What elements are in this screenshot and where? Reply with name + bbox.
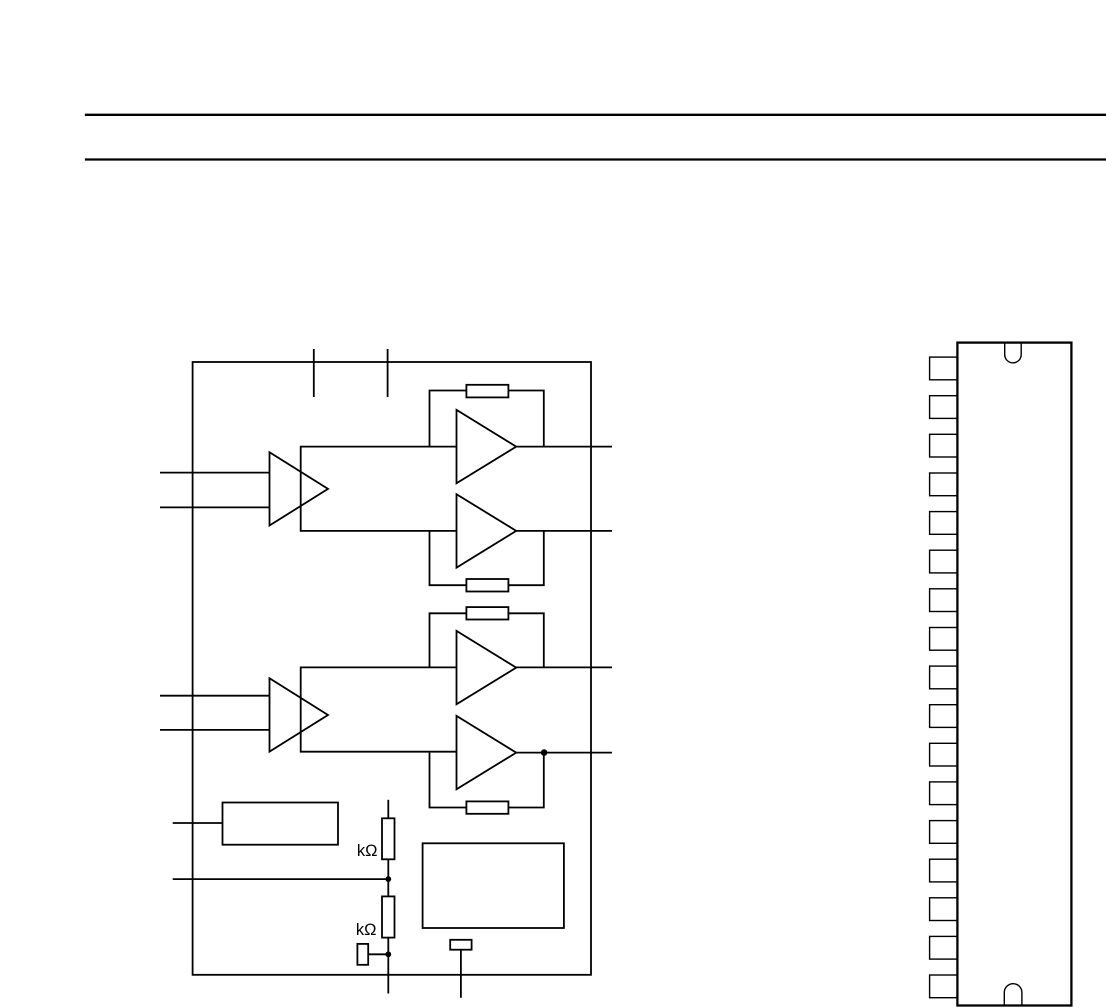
package pin 17 [930,975,958,998]
driver bus ch2 [301,667,457,751]
junction dot bias node [385,876,391,882]
wire below R2 to pin [387,938,389,994]
st-by block [223,803,339,845]
package pin 3 [930,434,958,457]
wire input IN1+ [160,472,270,474]
wire output OUT1- [516,530,612,532]
package pin 1 [930,357,958,380]
wire above resistor R1 [387,800,389,819]
package pin 16 [930,936,958,959]
capacitor box SVR [357,944,368,965]
wire bias node input [173,878,389,880]
power amp ch1 upper [457,410,517,483]
junction dot SVR node [385,951,391,957]
package pin 15 [930,898,958,921]
feedback resistor ch2 upper [466,607,508,619]
package pin 8 [930,628,958,651]
package pin 10 [930,705,958,728]
wire input IN2+ [160,695,270,697]
feedback resistor ch1 lower [466,579,508,592]
package pin 13 [930,821,958,844]
svg-text:kΩ: kΩ [356,921,377,939]
package pin 2 [930,396,958,419]
feedback wires ch2 lower [430,753,544,808]
power amp ch1 lower [457,494,517,567]
svg-text:kΩ: kΩ [357,842,378,860]
wire output OUT2+ [516,666,612,668]
package pin 9 [930,666,958,689]
package top notch [1005,344,1022,363]
package pin 6 [930,550,958,573]
package pin 12 [930,782,958,805]
wire st-by input [173,822,223,824]
feedback resistor ch2 lower [466,801,508,813]
input buffer amp ch2 [270,678,329,751]
package body [957,343,1071,1006]
driver bus ch1 [301,447,457,531]
wire capacitor to node [368,953,388,955]
package bottom notch [1004,984,1022,1005]
wire pad to bottom pin [460,950,462,998]
feedback wires ch1 lower [430,531,544,585]
power amp ch2 upper [457,631,517,704]
package pin 4 [930,473,958,496]
resistor R2 [382,896,395,937]
package pin 5 [930,512,958,535]
header rule bottom [85,158,1106,160]
mute/thermal block [423,843,564,928]
header rule top [85,114,1106,116]
package pin 11 [930,743,958,766]
input buffer amp ch1 [270,452,329,525]
wire output OUT2- [516,752,612,754]
supply pin stub Vs1 [313,349,315,397]
feedback wires ch2 upper [430,613,544,667]
package pin 14 [930,859,958,882]
pad box below block [450,940,471,950]
resistor R1 [382,818,395,859]
wire node to R2 [387,879,389,896]
feedback resistor ch1 upper [466,385,508,398]
wire input IN2- [160,729,270,731]
package pin 7 [930,589,958,612]
power amp ch2 lower [457,716,517,789]
wire input IN1- [160,506,270,508]
wire below R1 [387,859,389,879]
wire output OUT1+ [516,446,612,448]
junction dot OUT2- feedback node [541,749,548,756]
IC boundary box [193,362,591,975]
supply pin stub Vs2 [387,349,389,397]
feedback wires ch1 upper [430,391,544,447]
